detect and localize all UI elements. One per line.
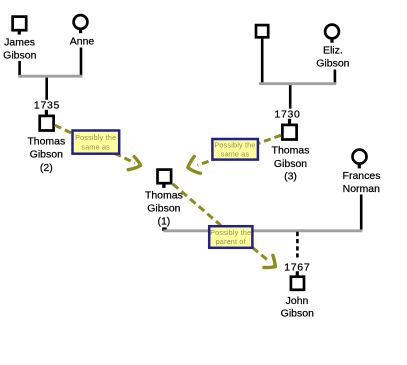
svg-text:Anne: Anne bbox=[70, 36, 95, 48]
person Thomas Gibson (2) (male square symbol) bbox=[27, 116, 65, 174]
svg-text:Gibson: Gibson bbox=[274, 158, 307, 170]
wire: couple bar Thomas(1) + Frances (gray) bbox=[163, 229, 362, 232]
svg-text:Eliz.: Eliz. bbox=[323, 44, 343, 56]
svg-text:parent of: parent of bbox=[216, 237, 246, 246]
svg-text:1735: 1735 bbox=[34, 100, 60, 112]
svg-text:Norman: Norman bbox=[343, 183, 381, 195]
arrow: possibly-the-same-as dashed line 2 (Thomas 3 to Thomas 1) bbox=[198, 135, 282, 165]
wire: family 1 child drop line bbox=[45, 78, 48, 100]
svg-text:Possibly the: Possibly the bbox=[214, 140, 255, 149]
wire: James descent line bbox=[18, 61, 21, 76]
svg-text:Frances: Frances bbox=[343, 170, 381, 182]
wire: stub above Thomas Gibson (2) bbox=[45, 110, 48, 115]
wire: unnamed father descent line bbox=[261, 39, 264, 84]
wire: Anne descent line bbox=[80, 48, 83, 77]
arrowhead 3 bbox=[264, 255, 276, 267]
annotation box 2: Possibly the same as bbox=[212, 139, 258, 160]
person John Gibson (male square symbol) bbox=[281, 277, 314, 320]
svg-text:Thomas: Thomas bbox=[272, 145, 310, 157]
svg-text:Possibly the: Possibly the bbox=[210, 228, 251, 237]
wire: Eliz descent line bbox=[334, 70, 337, 84]
svg-text:Gibson: Gibson bbox=[147, 202, 180, 214]
svg-text:Thomas: Thomas bbox=[27, 136, 65, 148]
node: junction cap under Thomas Gibson (1) bbox=[162, 227, 167, 231]
wire: Frances descent line bbox=[360, 195, 363, 231]
person Anne (female circle symbol) bbox=[70, 15, 95, 48]
arrowhead 1 bbox=[128, 157, 140, 170]
person Thomas Gibson (3) (male square symbol) bbox=[272, 125, 310, 182]
svg-text:(3): (3) bbox=[284, 170, 297, 182]
annotation box 3: Possibly the parent of bbox=[209, 226, 252, 248]
arrowhead 2 bbox=[188, 157, 201, 174]
person Eliz. Gibson (female circle symbol) bbox=[316, 25, 349, 70]
arrow: possibly-the-parent-of dashed line (segment B to John) bbox=[253, 248, 270, 262]
svg-text:James: James bbox=[4, 36, 35, 48]
person Thomas Gibson (1) (male square symbol) bbox=[145, 170, 183, 228]
wire: stub above Thomas Gibson (3) bbox=[288, 119, 291, 124]
svg-text:same as: same as bbox=[81, 142, 110, 151]
arrow: possibly-the-parent-of dashed line (segment A from Thomas 1) bbox=[173, 184, 221, 226]
svg-text:John: John bbox=[286, 295, 309, 307]
annotation box 1: Possibly the same as bbox=[73, 131, 120, 154]
svg-text:Possibly the: Possibly the bbox=[75, 133, 116, 142]
svg-text:Thomas: Thomas bbox=[145, 189, 183, 201]
wire: family 2 couple bar (gray) bbox=[259, 82, 336, 85]
wire: family 1 couple bar (gray) bbox=[18, 75, 82, 78]
svg-text:1730: 1730 bbox=[274, 108, 300, 120]
person James Gibson (male square symbol) bbox=[3, 17, 36, 62]
svg-text:(1): (1) bbox=[157, 215, 170, 227]
svg-text:same as: same as bbox=[221, 149, 250, 158]
svg-text:(2): (2) bbox=[40, 162, 53, 174]
wire: family 2 child drop line bbox=[289, 85, 292, 108]
wire: dashed descent to John (black dashed) bbox=[296, 232, 299, 258]
svg-text:Gibson: Gibson bbox=[281, 308, 314, 320]
wire: stub above John Gibson bbox=[296, 271, 299, 276]
person Frances Norman (female circle symbol) bbox=[343, 150, 381, 195]
svg-text:Gibson: Gibson bbox=[3, 49, 36, 61]
arrow: possibly-the-same-as dashed line 1 (Thomas 2 to Thomas 1) bbox=[55, 125, 135, 163]
svg-text:Gibson: Gibson bbox=[30, 149, 63, 161]
svg-text:Gibson: Gibson bbox=[316, 58, 349, 70]
person (unnamed father, right family, male square symbol) bbox=[256, 25, 268, 37]
